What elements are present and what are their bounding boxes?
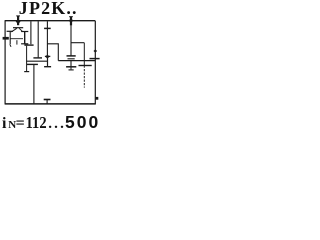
svg-text:500: 500 (65, 112, 100, 128)
svg-text:...: ... (48, 116, 66, 128)
svg-text:i: i (2, 115, 7, 128)
svg-text:JP2K..: JP2K.. (19, 0, 78, 18)
svg-text:=: = (16, 115, 25, 128)
svg-text:112: 112 (26, 113, 47, 128)
